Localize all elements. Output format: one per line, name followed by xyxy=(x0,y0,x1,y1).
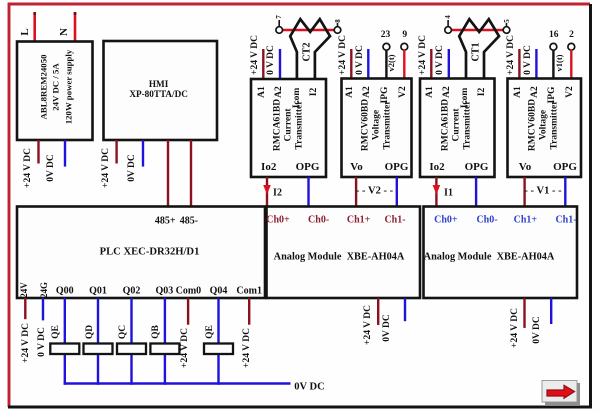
label PLC pin Q03 xyxy=(156,286,174,297)
module2 pin Ch1- xyxy=(555,214,576,225)
label U1 pin OPG xyxy=(296,161,320,173)
label node 2 xyxy=(569,30,574,40)
module1 pin Ch1- xyxy=(384,214,405,225)
label node 23 xyxy=(381,30,391,40)
CT2 terminal stem left xyxy=(278,20,280,28)
CT2 primary red line xyxy=(282,29,335,31)
label U2 pin Vo xyxy=(350,161,362,173)
label relay QE2 xyxy=(205,325,215,339)
CT1 terminal stem right xyxy=(506,23,508,28)
analog module 2 box xyxy=(424,207,578,299)
label CT2 terminal 7 xyxy=(275,15,283,19)
wire N line xyxy=(74,13,77,42)
nav button shadow xyxy=(545,383,580,405)
node 23 circle xyxy=(383,43,390,50)
wire RS485+ HMI to PLC xyxy=(167,140,169,207)
label 0VDC power supply xyxy=(46,154,56,182)
label U1 pin A2 xyxy=(274,86,284,98)
module2 pin Ch0+ xyxy=(434,214,457,225)
CT1 terminal stem left xyxy=(447,20,449,28)
label 485+ xyxy=(155,215,176,226)
module1 pin Ch1+ xyxy=(347,214,370,225)
arrowhead I1 xyxy=(433,185,441,195)
wire 0V stub under power supply xyxy=(64,140,66,167)
CT1 terminal circle left xyxy=(445,27,452,34)
transmitter U4 text xyxy=(527,99,560,151)
wire 0V bus xyxy=(64,382,291,384)
PLC text xyxy=(100,247,200,258)
HMI box xyxy=(104,41,218,140)
label relay QE1 xyxy=(51,325,61,339)
relay K1 box xyxy=(50,344,79,355)
wire 0V to U2 A2 xyxy=(367,49,369,79)
label U2 pin A1 xyxy=(345,86,355,98)
label CT2 terminal 8 xyxy=(334,19,342,23)
wire 0V stub under HMI xyxy=(142,140,144,167)
label +24VDC power supply xyxy=(23,148,33,188)
CT1 primary red line xyxy=(451,29,504,31)
analog module1 text xyxy=(274,251,405,262)
wire v2 to U2 V2 xyxy=(403,50,405,79)
transmitter U2 box xyxy=(342,79,412,178)
label U3 pin OPG xyxy=(465,161,489,173)
label PLC pin 24V xyxy=(19,282,29,298)
transmitter U1 box xyxy=(251,79,326,177)
label module1 +24VDC xyxy=(363,305,373,345)
wire L line xyxy=(33,13,36,42)
label CT1 terminal 5 xyxy=(503,19,511,23)
label +24VDC U4 xyxy=(506,35,516,75)
wire I1 U3 Io2 to module2 Ch0+ xyxy=(435,177,437,207)
label 0VDC HMI xyxy=(127,154,137,182)
relay K5 box xyxy=(204,344,233,355)
wire +24V stub under power supply xyxy=(37,140,39,164)
wire 0V to U1 A2 xyxy=(279,49,281,79)
wire U3 OPG to module2 Ch0- xyxy=(475,177,477,207)
CT1 terminal circle right xyxy=(503,27,510,34)
label U4 pin IPG xyxy=(547,87,557,104)
wire I2 U1 Io2 to module1 Ch0+ xyxy=(266,177,268,207)
label U4 pin OPG xyxy=(553,161,577,173)
wire 0V to U4 A2 xyxy=(535,49,537,79)
CT2 terminal circle right xyxy=(334,27,341,34)
wire 24G stub xyxy=(42,298,44,320)
wire +24V to U2 A1 xyxy=(350,49,352,79)
label CT2 xyxy=(301,43,312,62)
label U2 pin V2 xyxy=(398,86,408,98)
label v2(t) xyxy=(386,54,396,71)
wire U4 Vo to module2 Ch1+ xyxy=(523,177,525,207)
label +24VDC 24V xyxy=(21,323,31,363)
label +24VDC HMI xyxy=(101,148,111,188)
node 16 circle xyxy=(550,43,557,50)
label I2 xyxy=(273,188,282,199)
label 0VDC U2 xyxy=(355,45,365,75)
label U4 pin A2 xyxy=(530,86,540,98)
label 485- xyxy=(180,215,198,226)
label U3 pin A2 xyxy=(442,86,452,98)
wire module2 +24V stub xyxy=(523,298,525,328)
label U2 pin IPG xyxy=(380,87,390,104)
wire 24V stub xyxy=(24,298,26,319)
label node 9 xyxy=(402,30,407,40)
label U2 pin OPG xyxy=(385,161,409,173)
label 0VDC 24G xyxy=(37,327,47,357)
label PLC pin Com0 xyxy=(176,286,202,297)
label V1 net xyxy=(524,186,561,197)
label U4 pin A1 xyxy=(513,86,523,98)
label +24VDC Com1 xyxy=(242,328,252,368)
label U4 pin Vo xyxy=(519,161,531,173)
wire module1 0V stub xyxy=(404,298,406,321)
label U4 pin V2 xyxy=(565,86,575,98)
transmitter U4 box xyxy=(508,79,582,178)
label 0VDC U1 xyxy=(266,45,276,75)
wire module2 0V stub xyxy=(550,298,552,324)
wire L tip xyxy=(33,12,36,15)
label U1 pin A1 xyxy=(257,86,267,98)
label 0VDC U4 xyxy=(523,45,533,75)
relay K3 box xyxy=(117,344,146,355)
label +24VDC Com0 xyxy=(180,328,190,368)
label module2 0VDC xyxy=(532,316,542,344)
arrowhead I2 xyxy=(263,185,271,195)
label L xyxy=(19,28,31,35)
wire +24V to U1 A1 xyxy=(262,49,264,79)
wire U2 OPG to module1 Ch1- xyxy=(396,177,398,207)
wire 0V to U3 A2 xyxy=(448,49,450,79)
transmitter U3 text xyxy=(441,99,474,151)
module1 pin Ch0+ xyxy=(266,214,289,225)
wire +24V stub under HMI xyxy=(115,140,117,164)
wire Q01 to bus xyxy=(97,298,99,385)
module2 pin Ch1+ xyxy=(514,214,537,225)
wire v2 to U2 IPG xyxy=(385,50,387,79)
label module2 +24VDC xyxy=(510,308,520,348)
label CT1 xyxy=(470,43,481,62)
label U2 pin A2 xyxy=(362,86,372,98)
label relay QC xyxy=(118,324,128,338)
PLC box xyxy=(17,207,265,299)
label U3 pin A1 xyxy=(425,86,435,98)
wire +24V to U4 A1 xyxy=(518,49,520,79)
label U1 pin Io2 xyxy=(261,161,276,173)
relay K2 box xyxy=(84,344,113,355)
wire RS485- HMI to PLC xyxy=(190,140,192,207)
analog module2 text xyxy=(424,251,555,262)
CT1 winding symbol xyxy=(459,19,499,78)
module1 pin Ch0- xyxy=(308,214,329,225)
wire U1 OPG to module1 Ch0- xyxy=(307,177,309,207)
transmitter U3 box xyxy=(420,79,495,178)
wire Q00 to bus xyxy=(64,298,66,385)
label relay QB xyxy=(151,325,161,339)
CT2 winding symbol xyxy=(290,19,330,79)
label 0VDC U3 xyxy=(435,45,445,75)
transmitter U2 text xyxy=(360,99,393,151)
wire Com1 stub xyxy=(248,298,250,325)
label relay QD xyxy=(85,324,95,338)
label PLC pin Q00 xyxy=(56,286,74,297)
label node 16 xyxy=(549,30,559,40)
nav button xyxy=(542,381,577,403)
label PLC pin Com1 xyxy=(236,286,262,297)
wire Q02 to bus xyxy=(130,298,132,385)
transmitter U1 text xyxy=(273,99,306,151)
nav button arrow xyxy=(547,385,575,398)
label CT1 terminal 4 xyxy=(444,15,452,19)
label U3 pin I2 xyxy=(477,88,487,96)
label PLC pin Q02 xyxy=(123,286,141,297)
label U1 pin I2 xyxy=(309,88,319,96)
power supply box xyxy=(17,42,93,141)
node 9 circle xyxy=(401,43,408,50)
wire Com0 stub xyxy=(187,298,189,325)
wire +24V to U3 A1 xyxy=(430,49,432,79)
power supply text xyxy=(38,49,75,123)
CT2 terminal stem right xyxy=(337,23,339,28)
label V2 net xyxy=(356,185,393,196)
wire module1 +24V stub xyxy=(377,298,379,325)
label PLC pin 24G xyxy=(39,282,49,298)
CT2 terminal circle left xyxy=(276,27,283,34)
analog module 1 box xyxy=(267,207,421,299)
wire N tip xyxy=(74,12,77,15)
wire v1 to U4 V2 xyxy=(570,50,572,79)
relay K4 box xyxy=(150,344,179,355)
node 2 circle xyxy=(568,43,575,50)
module2 pin Ch0- xyxy=(476,214,497,225)
HMI text xyxy=(129,79,188,99)
label module1 0VDC xyxy=(382,314,392,342)
label U1 pin Icom xyxy=(292,88,302,109)
label +24VDC U2 xyxy=(338,35,348,75)
label PLC pin Q01 xyxy=(89,286,107,297)
label U3 pin Io2 xyxy=(429,161,444,173)
label +24VDC U3 xyxy=(418,35,428,75)
wire U4 OPG to module2 Ch1- xyxy=(564,177,566,207)
label U3 pin Icom xyxy=(460,88,470,109)
wire v1 to U4 IPG xyxy=(552,50,554,79)
label +24VDC U1 xyxy=(250,35,260,75)
wire U2 Vo to module1 Ch1+ xyxy=(355,177,357,207)
wire Q04 to bus xyxy=(217,298,219,385)
label N xyxy=(58,28,70,36)
label v1(t) xyxy=(554,54,564,71)
label PLC pin Q04 xyxy=(210,286,228,297)
label 0V bus xyxy=(294,382,324,393)
wire Q03 to bus xyxy=(164,298,166,385)
label I1 xyxy=(444,188,453,199)
